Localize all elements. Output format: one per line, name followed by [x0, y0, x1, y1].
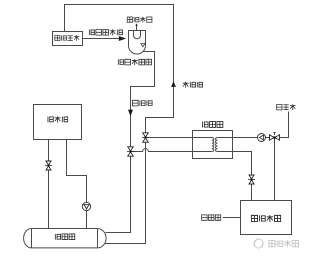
wire: heat use point line [223, 217, 241, 219]
wire: valve V2 branch to heat exchanger [146, 137, 193, 139]
label 低温油 [183, 82, 203, 88]
label 自来水 [277, 104, 296, 110]
compressor label 压缩主机 [55, 35, 79, 41]
label 压缩空气 [127, 17, 152, 23]
pump P1 (cooling water) [82, 202, 90, 210]
storage tank label 蓄热水箱 [251, 215, 280, 222]
separator inner tube [134, 31, 141, 39]
label 用热点 [202, 215, 221, 220]
storage tank box 蓄热水箱 [241, 201, 292, 235]
oil cooler tank 换热器 (horizontal vessel with dished heads) [24, 229, 106, 248]
valve V4 (HX outlet to storage tank) [248, 175, 255, 184]
heat-exchanger label 换热器 [203, 122, 223, 128]
wire: valve V3 branch down to storage tank [274, 138, 276, 201]
label 油气分离器 [118, 59, 151, 65]
wire: cooling tower return line (left) [48, 140, 50, 229]
wire: cold oil return loop (tank right cap, up riser, top run, down into compressor) [65, 5, 174, 244]
wire: cooling tower supply line via pump P1 [67, 140, 87, 229]
wire: heat exchanger bottom outlet down to storage tank [233, 152, 252, 201]
oil-gas separator vessel 油气分离器 [129, 31, 146, 55]
arrow: hot oil down [128, 110, 133, 117]
wire: heat exchanger to tap water line (top right) [233, 112, 289, 138]
oil-cooler label 换热器 [55, 234, 74, 240]
label 油气混合物 [89, 29, 122, 35]
wire: hot oil line separator outlet down to oil-cooler tank [106, 52, 155, 233]
compressor box 压缩主机 [53, 32, 83, 46]
watermark text 压缩机网 [269, 240, 299, 247]
cooling tower label 冷却塔 [48, 116, 68, 122]
arrow: oil-gas mixture into separator [119, 36, 126, 41]
wire: valve V1 branch to heat exchanger with hop over crossing [131, 149, 193, 152]
wire: oil-gas mixture line compressor to separator [83, 38, 125, 40]
pump P2 (tap water) [258, 134, 266, 142]
valve V1 (three-way, hot oil line, branch to HX) [127, 147, 134, 156]
valve V3 (three-way on tap water line) [270, 133, 280, 141]
watermark logo circle [254, 239, 263, 248]
arrow: compressed air out (small, up) [135, 23, 137, 25]
heat exchanger box 换热器 [193, 131, 233, 159]
separator outlet stub up [136, 25, 138, 30]
separator level indicator triangle [141, 44, 145, 47]
heat exchanger internal pipes and coils [193, 138, 233, 152]
arrow: cold oil up [171, 81, 176, 87]
cooling tower box 冷却塔 [34, 105, 82, 140]
valve V5 (cooling tower return) [45, 161, 52, 170]
valve V2 (three-way, oil return line, branch to HX) [142, 133, 149, 142]
label 高温油 [133, 100, 153, 106]
